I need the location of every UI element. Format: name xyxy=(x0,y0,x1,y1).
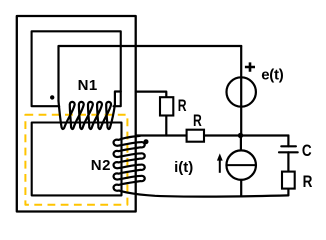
core outer outline xyxy=(17,16,136,212)
polarity dot N1 xyxy=(50,95,54,99)
svg-text:i(t): i(t) xyxy=(174,159,193,176)
flux path (dashed) xyxy=(25,115,127,205)
plus sign xyxy=(245,62,255,71)
core top window xyxy=(32,31,121,106)
current source i(t) xyxy=(226,150,256,180)
i(t) branch bottom wire xyxy=(240,180,242,196)
winding N1 coil xyxy=(59,101,115,129)
svg-text:N2: N2 xyxy=(91,157,111,174)
svg-text:C: C xyxy=(302,142,312,161)
winding N1 exit wire xyxy=(115,92,121,105)
e(t) branch wire xyxy=(240,46,242,136)
junction dot xyxy=(238,133,243,138)
svg-text:R: R xyxy=(303,172,313,191)
i(t) branch top wire xyxy=(240,136,242,151)
resistor R1 xyxy=(160,97,173,115)
current arrow xyxy=(219,160,221,173)
R3 bottom wire xyxy=(287,189,289,196)
mid wire xyxy=(137,134,289,136)
current source diameter line xyxy=(227,164,256,166)
capacitor C plates xyxy=(279,146,298,152)
wire N1 top terminal xyxy=(59,46,242,101)
core bottom window xyxy=(32,123,122,196)
winding N2 coil xyxy=(114,136,145,191)
bottom rail wire xyxy=(119,191,289,197)
polarity dot N2 xyxy=(144,139,149,144)
wire R1 bottom to mid node xyxy=(165,116,167,136)
svg-text:e(t): e(t) xyxy=(261,66,284,83)
C branch top wire xyxy=(287,136,289,147)
svg-text:R: R xyxy=(178,97,187,115)
C to R3 wire xyxy=(287,152,289,171)
voltage source e(t) xyxy=(227,77,256,106)
svg-text:R: R xyxy=(193,112,202,130)
wire from core to R1 xyxy=(136,92,166,98)
svg-text:N1: N1 xyxy=(78,77,98,94)
resistor R3 xyxy=(282,172,295,189)
resistor R2 xyxy=(187,130,204,142)
